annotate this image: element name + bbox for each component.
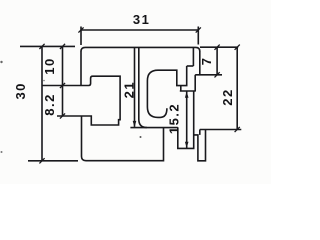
wire: tick at slot mouth top — [42, 85, 81, 87]
node A: left T-slot outline — [81, 76, 120, 125]
wire: left outer wall lower and bottom edge — [82, 116, 164, 161]
svg-text:15.2: 15.2 — [167, 103, 182, 134]
wire: inner-left wall with arc into floor — [139, 47, 147, 127]
svg-text:7: 7 — [199, 57, 214, 66]
wire: right outer wall upper — [199, 51, 201, 75]
wire: dimension 21 line — [134, 48, 136, 127]
wire: tab top edge — [187, 65, 194, 67]
wire: dimension 7 line — [216, 47, 218, 75]
speck — [1, 151, 3, 153]
svg-text:30: 30 — [13, 82, 28, 99]
wire: dimension 22 line — [236, 47, 238, 129]
wire: lower edge of right wall / top tick of dim 15.2 — [180, 90, 196, 92]
wire: profile top edge with rounded corners — [81, 47, 200, 51]
wire: bottom tick of 22 — [200, 129, 242, 131]
wire: tick at slot mouth bottom — [57, 115, 82, 117]
node B: right inner cavity outline — [147, 66, 186, 117]
speck — [0, 61, 2, 63]
wire: dimension 30 line — [41, 46, 43, 160]
speck — [140, 136, 142, 138]
wire: bottom screw slot — [178, 91, 194, 148]
svg-text:22: 22 — [220, 88, 235, 105]
node C: bottom-right foot with step — [194, 130, 206, 161]
wire: dimension line for 10 and 8.2 — [62, 46, 64, 116]
wire: top-right partition — [192, 47, 194, 66]
wire: step at 7 level plus tick of dim 7 — [195, 74, 222, 76]
wire: dimension 31 line and extension lines — [81, 27, 198, 46]
wire: dimension 15.2 line — [186, 91, 188, 148]
wire: left outer wall upper — [80, 51, 82, 85]
wire: right top tick shared by 7 and 22 — [200, 46, 238, 48]
svg-text:10: 10 — [42, 57, 57, 74]
wire: top tick shared by 30 and 10 — [20, 45, 75, 47]
wire: bottom tick of 30 — [28, 160, 78, 162]
wire: right inner wall segment — [194, 75, 196, 91]
svg-text:31: 31 — [133, 12, 150, 27]
svg-text:21: 21 — [122, 81, 137, 98]
svg-text:8.2: 8.2 — [42, 93, 57, 116]
speck — [43, 80, 45, 82]
wire: floor line (also dim 21 bottom tick) — [130, 127, 177, 129]
ground: arrowheads for dim 21 and dim 15.2 — [133, 91, 189, 148]
wire: small stem under cavity notch — [180, 86, 182, 91]
ground: oblique tick marks at dimension ends — [39, 27, 239, 163]
